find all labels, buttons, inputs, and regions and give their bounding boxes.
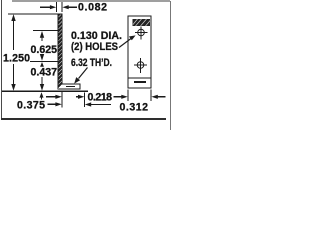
1.250 bottom arrowhead	[11, 84, 15, 91]
foot of bracket	[58, 84, 80, 89]
extension tick right of 0.082	[61, 2, 63, 12]
0.218 left outside arrow	[46, 95, 62, 99]
top extension line	[8, 13, 58, 15]
bottom hole	[134, 58, 147, 73]
bend line in front view	[128, 77, 151, 79]
arrow pointing right at front view left edge	[114, 95, 128, 99]
page frame bottom border	[1, 118, 166, 120]
arrow pointing left at x84 lower row	[85, 102, 111, 106]
page frame left border	[1, 0, 3, 119]
extension tick at x84	[84, 93, 86, 108]
svg-text:0.375: 0.375	[17, 99, 45, 111]
svg-text:0.437: 0.437	[31, 67, 58, 79]
0.375 arrow pointing right	[48, 102, 62, 106]
arrow pointing right at strip width	[40, 5, 56, 9]
svg-text:1.250: 1.250	[3, 53, 30, 65]
dimension 0.625 top arrowhead	[40, 31, 44, 38]
dimension 1.250 vertical line	[13, 17, 15, 50]
front view rectangle	[128, 16, 151, 88]
arrow pointing left at strip width	[62, 5, 77, 9]
page frame right border	[170, 1, 172, 130]
top hole	[135, 26, 148, 39]
extension tick below front view right edge	[150, 90, 152, 102]
page frame top border fragment	[12, 0, 170, 2]
svg-text:0.082: 0.082	[78, 2, 107, 14]
extension line at top hole row	[33, 30, 58, 32]
svg-text:(2) HOLES: (2) HOLES	[71, 41, 118, 53]
bottom extension baseline	[2, 90, 88, 92]
dimension 0.625 bottom arrowhead	[41, 54, 43, 57]
extension line at second hole row	[30, 60, 58, 62]
leader arrow to top hole	[119, 35, 136, 47]
svg-text:6.32 TH’D.: 6.32 TH’D.	[71, 57, 112, 69]
side view strip (hatched)	[58, 14, 62, 89]
extension tick below front view left edge	[127, 90, 129, 102]
threaded hole dash in foot	[66, 86, 75, 88]
1.250 top arrowhead	[11, 14, 15, 21]
leader arrow to threaded foot	[74, 68, 87, 84]
hatched band at top of front view	[132, 19, 150, 26]
small up arrowhead below baseline	[40, 92, 44, 99]
svg-text:0.312: 0.312	[120, 101, 149, 113]
extension tick left of 0.082	[56, 2, 58, 12]
dimension 0.437 line and bottom arrowhead	[41, 77, 43, 86]
extension tick below strip right edge	[61, 92, 63, 108]
0.218 right arrow at x84	[76, 95, 84, 99]
dimension 0.437 top arrowhead	[40, 62, 44, 67]
svg-text:0.218: 0.218	[88, 92, 113, 104]
arrow pointing left at front view right edge	[151, 95, 165, 99]
slot dash in front view	[134, 81, 146, 83]
